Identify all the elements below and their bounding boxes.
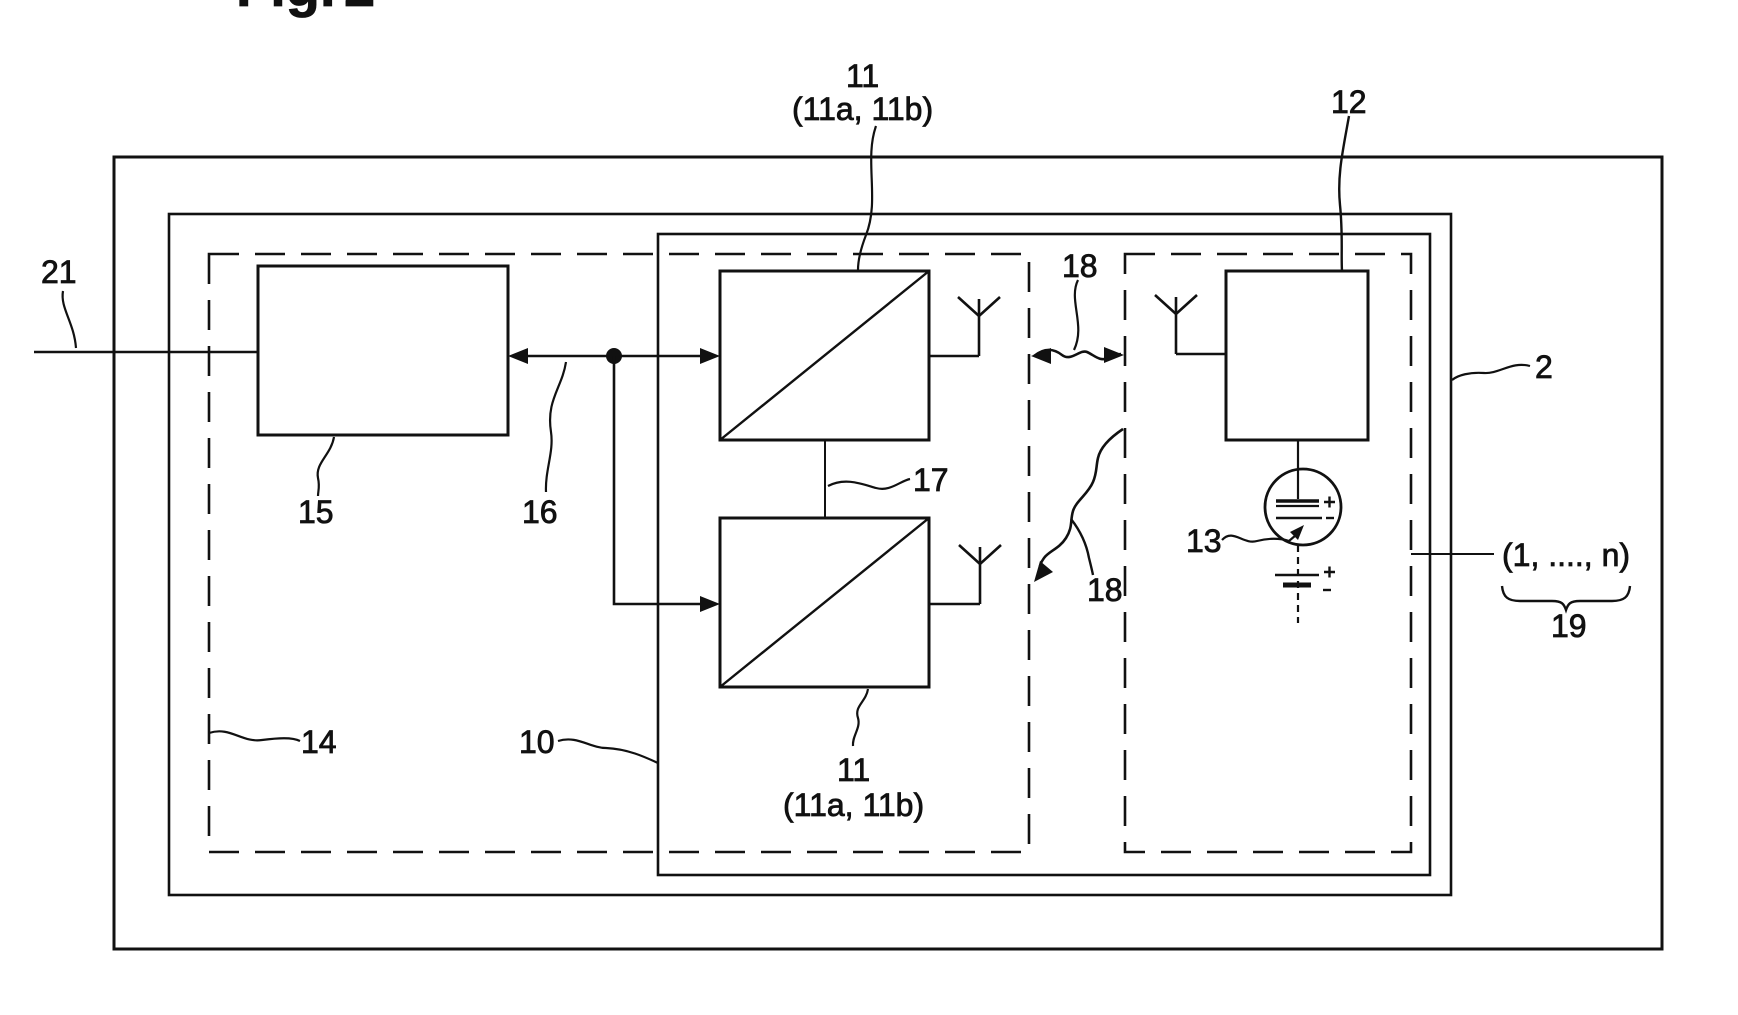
wire: transceiver 11b to antenna — [929, 603, 980, 605]
svg-text:21: 21 — [41, 254, 77, 290]
svg-text:18: 18 — [1062, 248, 1098, 284]
wire: antenna to block 12 — [1176, 353, 1226, 355]
wire: bidirectional bus 16 between block 15 and transceiver 11a — [508, 348, 720, 364]
wire to label (1,....,n) — [1411, 553, 1494, 555]
dash-dot wire below battery 13 — [1297, 545, 1299, 623]
svg-text:13: 13 — [1186, 523, 1222, 559]
svg-text:11: 11 — [846, 58, 879, 94]
figure title Fig. 2 (cut off at top) — [236, 0, 375, 18]
wire: arrow into transceiver 11b — [700, 596, 720, 612]
svg-text:16: 16 — [522, 494, 558, 530]
leader from bus to label 16 — [546, 362, 566, 492]
svg-text:12: 12 — [1331, 84, 1367, 120]
inner housing rect (labelled 2) — [169, 214, 1451, 895]
block 15 — [258, 266, 508, 435]
battery cell symbol below 13 — [1275, 567, 1335, 591]
leader from block 15 to label 15 — [318, 437, 334, 496]
leader from 21 to input line — [63, 291, 76, 348]
wireless link 18 (upper, double arrow wavy) — [1031, 347, 1124, 364]
leader from 11 to transceiver 11a — [858, 126, 876, 270]
leader from 13 to battery with arrow — [1222, 525, 1304, 542]
svg-text:10: 10 — [519, 724, 555, 760]
antenna of transceiver 11b — [959, 545, 1001, 604]
wire: vertical branch from junction — [614, 356, 700, 604]
svg-text:(11a, 11b): (11a, 11b) — [792, 91, 933, 127]
transceiver 11a (upper) — [720, 271, 929, 440]
antenna of block 12 — [1155, 295, 1197, 354]
wire 17 between transceivers — [824, 440, 826, 518]
battery 13 (circle) — [1265, 469, 1341, 545]
leader to lower 18 label — [1071, 519, 1093, 575]
svg-text:14: 14 — [301, 724, 337, 760]
wire: leader from label 12 to block 12 — [1339, 116, 1349, 271]
svg-text:2: 2 — [344, 0, 375, 18]
leader from label 10 to box 10 — [558, 739, 658, 763]
outer device enclosure rect — [114, 157, 1662, 949]
svg-text:(11a, 11b): (11a, 11b) — [783, 787, 924, 823]
transceiver 11b (lower) — [720, 518, 929, 687]
wire: transceiver 11a to antenna — [929, 355, 979, 357]
wire: block 12 to battery 13 — [1297, 440, 1299, 499]
wireless link 18 (lower, wavy arrow down-left) — [1034, 429, 1123, 582]
wire: input line 21 — [34, 351, 258, 354]
block 12 — [1226, 271, 1368, 440]
leader from dashed region to label 14 — [209, 731, 300, 741]
svg-text:(1, ...., n): (1, ...., n) — [1502, 537, 1630, 573]
svg-text:15: 15 — [298, 494, 334, 530]
node: junction dot on bus — [606, 348, 622, 364]
brace under (1,....,n) — [1502, 586, 1630, 610]
svg-text:17: 17 — [913, 462, 949, 498]
svg-text:19: 19 — [1551, 608, 1587, 644]
dashed region 14 (left) — [209, 254, 1029, 852]
leader from 2 to housing rect — [1452, 365, 1530, 380]
leader from transceiver 11b to bottom label — [853, 689, 868, 746]
svg-text:18: 18 — [1087, 572, 1123, 608]
svg-text:11: 11 — [837, 752, 870, 788]
dashed region (right, around 12/13) — [1125, 254, 1411, 852]
svg-text:Fig.: Fig. — [236, 0, 336, 18]
svg-text:2: 2 — [1535, 349, 1553, 385]
leader from 18 to wavy link — [1074, 280, 1078, 350]
module box 10 — [658, 234, 1430, 875]
antenna of transceiver 11a — [958, 297, 1000, 356]
leader from wire 17 to label — [828, 479, 910, 489]
